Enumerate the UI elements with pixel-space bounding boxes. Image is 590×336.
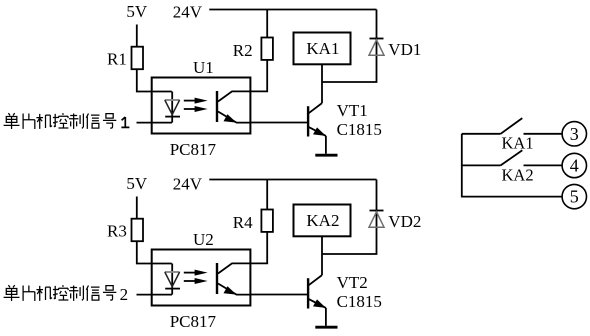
- svg-text:U2: U2: [193, 230, 214, 249]
- svg-text:VD2: VD2: [388, 212, 421, 231]
- svg-text:PC817: PC817: [170, 312, 217, 331]
- svg-text:5V: 5V: [126, 2, 147, 21]
- svg-text:C1815: C1815: [337, 120, 382, 139]
- svg-text:KA1: KA1: [502, 134, 534, 153]
- svg-text:VD1: VD1: [388, 40, 421, 59]
- svg-text:24V: 24V: [173, 2, 203, 21]
- svg-text:5: 5: [570, 187, 579, 207]
- svg-text:R1: R1: [107, 50, 127, 69]
- svg-text:R2: R2: [233, 41, 253, 60]
- svg-text:KA2: KA2: [502, 165, 534, 184]
- svg-text:24V: 24V: [173, 174, 203, 193]
- svg-text:VT2: VT2: [337, 273, 368, 292]
- svg-text:3: 3: [570, 124, 579, 144]
- svg-text:VT1: VT1: [337, 101, 368, 120]
- svg-text:R4: R4: [233, 213, 253, 232]
- svg-text:C1815: C1815: [337, 292, 382, 311]
- svg-text:4: 4: [570, 156, 579, 176]
- svg-text:U1: U1: [193, 58, 214, 77]
- svg-text:2: 2: [120, 285, 129, 304]
- svg-text:PC817: PC817: [170, 140, 217, 159]
- svg-text:R3: R3: [107, 222, 127, 241]
- svg-text:5V: 5V: [126, 174, 147, 193]
- svg-text:KA2: KA2: [306, 211, 339, 230]
- svg-text:KA1: KA1: [306, 39, 339, 58]
